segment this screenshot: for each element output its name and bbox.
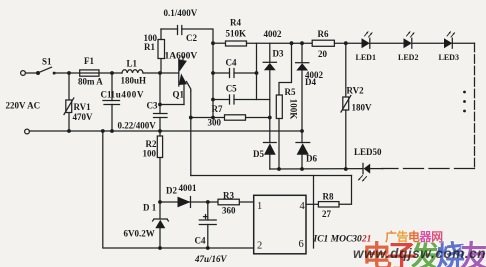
wire top rail to LEDs <box>247 42 313 44</box>
svg-text:180V: 180V <box>352 103 373 113</box>
diode D2 <box>178 197 191 208</box>
svg-text:6V0.2W: 6V0.2W <box>124 229 155 239</box>
node R7 mid <box>211 116 215 120</box>
capacitor C4 branch <box>213 43 257 117</box>
svg-text:1: 1 <box>257 201 262 212</box>
capacitor C3 <box>154 73 168 131</box>
svg-text:D3: D3 <box>273 49 284 59</box>
node C4el top <box>206 200 210 204</box>
resistor R8 <box>318 202 339 207</box>
svg-text:R6: R6 <box>318 29 329 39</box>
node RV2 top <box>344 41 348 45</box>
wire D5-D6 bottom row <box>270 168 363 170</box>
zener D1 <box>153 202 169 248</box>
capacitor C4 electrolytic <box>199 202 216 248</box>
node rail/C3-R2 <box>158 129 162 133</box>
svg-text:0.1/400V: 0.1/400V <box>164 8 198 18</box>
svg-text:LED2: LED2 <box>398 53 418 62</box>
svg-text:D4: D4 <box>305 77 316 87</box>
node D4/rail junction <box>300 129 304 133</box>
svg-text:C4: C4 <box>226 57 237 67</box>
terminal top-left <box>21 71 26 76</box>
svg-text:220V AC: 220V AC <box>6 101 41 111</box>
svg-text:D6: D6 <box>306 154 317 164</box>
node rail/RV1 <box>67 129 71 133</box>
svg-text:R5: R5 <box>285 87 296 97</box>
wire LED50 to dashed <box>370 168 383 170</box>
varistor RV1 <box>64 98 74 115</box>
node C4 right <box>255 71 259 75</box>
svg-text:100: 100 <box>143 148 157 158</box>
resistor R1 <box>158 29 165 73</box>
svg-text:27: 27 <box>322 209 332 219</box>
wire R8 right up <box>339 176 352 205</box>
node R2/D2/D1 <box>158 200 162 204</box>
svg-text:360: 360 <box>222 206 236 216</box>
node rail/left return column <box>101 129 105 133</box>
wire <box>412 42 444 44</box>
svg-text:4: 4 <box>300 201 306 212</box>
svg-text:R8: R8 <box>323 192 334 202</box>
svg-text:R3: R3 <box>223 191 234 201</box>
wire <box>26 72 37 74</box>
capacitor C1 <box>103 73 120 131</box>
LED LED2 <box>404 32 415 48</box>
wire bottom rail <box>30 130 303 132</box>
op-amp U1 box IC1 <box>254 195 306 254</box>
watermark <box>353 229 486 267</box>
svg-text:2: 2 <box>257 241 262 252</box>
svg-text:R4: R4 <box>230 18 241 28</box>
svg-text:100K: 100K <box>289 99 299 120</box>
svg-text:C4: C4 <box>195 236 206 246</box>
wire D2 row <box>160 201 254 203</box>
wire <box>213 42 226 44</box>
svg-text:LED1: LED1 <box>356 53 376 62</box>
node wireA/RV2 <box>344 167 348 171</box>
svg-text:180uH: 180uH <box>121 76 147 86</box>
diode D3 <box>263 43 276 117</box>
wire pin4 to R8 <box>306 203 318 205</box>
wire <box>370 42 404 44</box>
inductor L1 <box>122 70 143 73</box>
svg-text:D5: D5 <box>253 149 264 159</box>
svg-text:47u/16V: 47u/16V <box>194 254 228 264</box>
svg-text:www.dqjsw.com.cn: www.dqjsw.com.cn <box>353 246 486 261</box>
LED LED1 <box>362 32 373 48</box>
wire RV1 branch <box>68 73 70 131</box>
node C4el bottom <box>206 246 210 250</box>
wire Q1 MT1 to C3 column <box>160 85 184 105</box>
node wireA/R5 <box>277 167 281 171</box>
svg-text:1A600V: 1A600V <box>165 52 198 62</box>
svg-text:470V: 470V <box>73 112 94 122</box>
svg-text:RV2: RV2 <box>347 86 365 96</box>
node C4 left <box>211 71 215 75</box>
svg-text:L1: L1 <box>127 59 138 69</box>
wire pin6 column <box>313 176 315 249</box>
node C5 left <box>211 98 215 102</box>
svg-text:R1: R1 <box>144 42 155 52</box>
resistor R6 <box>312 40 334 46</box>
wire left return column <box>103 131 254 248</box>
varistor RV2 <box>341 43 351 169</box>
node: R1/C3 junction <box>158 71 162 75</box>
svg-text:D 1: D 1 <box>143 203 157 213</box>
node: C2/R4 junction <box>211 41 215 45</box>
node D4 top <box>300 41 304 45</box>
svg-text:LED3: LED3 <box>439 53 459 62</box>
svg-text:F1: F1 <box>84 56 94 66</box>
resistor R2 <box>157 131 162 202</box>
svg-text:4002: 4002 <box>264 29 283 39</box>
diode D5 <box>264 118 277 170</box>
svg-text:510K: 510K <box>226 29 247 39</box>
resistor R3 <box>218 199 239 205</box>
node: switch/RV1 junction <box>67 71 71 75</box>
resistor R7 <box>191 115 270 120</box>
svg-text:S1: S1 <box>42 57 52 67</box>
LED LED50 <box>359 163 371 181</box>
svg-text:C3: C3 <box>147 101 158 111</box>
terminal bottom-left <box>25 129 30 134</box>
wire <box>334 42 361 44</box>
node: C1 junction <box>110 71 114 75</box>
svg-text:C2: C2 <box>186 33 197 43</box>
svg-text:1u400V: 1u400V <box>111 90 145 100</box>
diode D4 <box>296 43 309 131</box>
svg-text:LED50: LED50 <box>354 147 382 157</box>
node: MT1/C3 junction <box>158 103 162 107</box>
node R7 right <box>268 116 272 120</box>
triac Q1 <box>179 57 191 91</box>
fuse F1 <box>80 70 99 76</box>
wire dashed return right <box>474 43 476 168</box>
wire Q1 gate column <box>190 91 192 176</box>
node D1 bottom <box>158 246 162 250</box>
resistor R5 with jog <box>276 41 293 169</box>
wire dashed return bottom <box>382 168 475 170</box>
wire <box>452 42 474 44</box>
capacitor C2 <box>178 26 182 35</box>
node dots ellipsis <box>463 91 466 113</box>
node rail/C1 <box>110 129 114 133</box>
diode D6 <box>296 131 310 169</box>
svg-text:20: 20 <box>318 49 328 59</box>
svg-text:D2: D2 <box>166 186 177 196</box>
node wireA/D6 <box>300 167 304 171</box>
wire gate net B <box>191 175 352 177</box>
wire <box>143 72 179 74</box>
wire <box>99 72 122 74</box>
svg-text:RV1: RV1 <box>74 102 92 112</box>
wire C4/C5 right column <box>256 43 258 99</box>
wire <box>182 29 213 43</box>
switch S1 <box>37 67 56 74</box>
svg-text:R7: R7 <box>212 104 223 114</box>
wire <box>161 28 178 30</box>
node R7 left <box>189 116 193 120</box>
wire <box>55 72 80 74</box>
LED LED3 <box>444 32 455 48</box>
svg-text:0.22/400V: 0.22/400V <box>118 120 157 130</box>
svg-text:Q1: Q1 <box>173 90 185 100</box>
svg-text:广告电器网: 广告电器网 <box>385 229 443 244</box>
svg-text:300: 300 <box>208 118 222 128</box>
svg-text:80m A: 80m A <box>78 77 103 87</box>
svg-text:6: 6 <box>299 239 304 250</box>
capacitor C5 branch <box>213 95 270 104</box>
resistor R4 <box>226 41 247 46</box>
svg-text:4001: 4001 <box>179 183 198 193</box>
svg-text:C5: C5 <box>226 84 237 94</box>
